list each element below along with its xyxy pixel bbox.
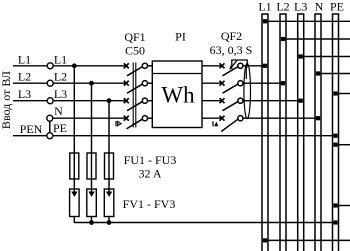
node square PE feeder low [333, 203, 337, 207]
svg-text:32 A: 32 A [138, 167, 161, 181]
breaker QF1 pole 3 [124, 98, 148, 111]
RCD QF2 pole 1 [220, 63, 243, 76]
wire meter to QF2 pole1 [202, 65, 222, 67]
wire meter to QF2 pole2 [202, 82, 222, 84]
svg-text:63, 0,3 S: 63, 0,3 S [210, 43, 253, 57]
wire N-PE link [49, 121, 51, 133]
feeder wire L1 bottom [265, 239, 350, 241]
arrester FV2 [87, 189, 97, 217]
wire L2 incoming [13, 82, 47, 84]
junction dot earth FV3 [107, 220, 112, 225]
terminal X1.3 circle L3 [47, 98, 53, 104]
svg-text:Ввод от ВЛ: Ввод от ВЛ [0, 71, 13, 129]
fuse FU2 [87, 153, 96, 179]
busbar L1 [261, 14, 268, 251]
svg-text:QF1: QF1 [124, 30, 145, 44]
RCD QF2 pole 2 [220, 81, 243, 94]
fuse FU3 [105, 153, 114, 179]
junction dot earth FV2 [89, 220, 94, 225]
svg-text:L1: L1 [258, 0, 271, 14]
feeder wire L1 top [265, 20, 350, 22]
wire L1 incoming [13, 65, 47, 67]
wire QF2 pole1 to L1 bus [243, 65, 265, 67]
node square L3 in [299, 99, 303, 103]
feeder wire L2 top [283, 38, 350, 40]
terminal circle N [47, 115, 53, 121]
breaker QF1 pole 1 [124, 63, 148, 76]
svg-text:L1: L1 [18, 52, 31, 66]
svg-text:PI: PI [175, 30, 186, 44]
svg-text:QF2: QF2 [221, 29, 242, 43]
busbar N [314, 14, 321, 251]
RCD QF2 pole 3 [220, 98, 243, 111]
junction dot L1 tap [72, 63, 77, 68]
svg-text:L3: L3 [18, 87, 31, 101]
wire PEN incoming [13, 135, 47, 137]
wire L1 terminal to QF1 [53, 65, 126, 67]
RCD QF2 pole 4 [220, 116, 243, 132]
svg-text:N: N [315, 0, 324, 14]
node square L2 in [281, 81, 285, 85]
wire QF2 pole4 to N bus [243, 117, 318, 119]
wire L2 terminal to QF1 [53, 82, 126, 84]
wire fuse drop 3 [108, 101, 110, 196]
wire PE line to PE bus [53, 135, 336, 137]
svg-text:PEN: PEN [20, 122, 43, 136]
wire meter to QF2 pole4 [202, 117, 222, 119]
svg-text:L2: L2 [54, 70, 67, 84]
QF2 differential release symbol IΔ [212, 121, 214, 126]
svg-text:FV1 - FV3: FV1 - FV3 [123, 197, 176, 211]
node square N feeder [316, 71, 320, 75]
svg-text:N: N [54, 104, 63, 118]
QF2 differential toroid ellipse [244, 63, 251, 118]
feeder wire PE top [336, 93, 350, 95]
wire QF1 pole3 to meter [148, 100, 153, 102]
feeder wire PE mid [336, 144, 350, 146]
svg-text:L2: L2 [18, 70, 31, 84]
svg-text:L1: L1 [54, 52, 67, 66]
wire fuse drop 1 [73, 66, 75, 196]
svg-text:PE: PE [53, 121, 67, 135]
arrester FV3 [104, 189, 114, 217]
terminal X1.2 circle L2 [47, 80, 53, 86]
junction dot L2 tap [89, 81, 94, 86]
QF2 toroid link arrow [245, 67, 247, 79]
wire L3 incoming [13, 100, 47, 102]
QF2 trip box [232, 60, 247, 67]
wire fuse drop 2 [91, 83, 93, 196]
feeder wire N top [318, 73, 350, 75]
node square PE feeder top [333, 91, 337, 95]
node square L1 feeder bottom [263, 238, 267, 242]
wire QF2 pole3 to L3 bus [243, 100, 301, 102]
node square L1 feeder top [263, 19, 267, 23]
node square L1 in [263, 64, 267, 68]
busbar PE [332, 14, 339, 251]
svg-text:C50: C50 [125, 44, 145, 58]
breaker QF1 pole 4 [124, 116, 148, 129]
QF2 trip arrow [231, 60, 237, 67]
node square L3 feeder [299, 54, 303, 58]
feeder wire PE low [336, 205, 350, 207]
wire arrester earth line [74, 222, 335, 224]
junction dot L3 tap [107, 98, 112, 103]
breaker QF1 pole 2 [124, 81, 148, 94]
terminal X1.1 circle L1 [47, 63, 53, 69]
wire QF1 pole4 to meter [148, 117, 153, 119]
node square PE earth [333, 220, 337, 224]
svg-text:FU1 - FU3: FU1 - FU3 [124, 153, 177, 167]
arrester FV1 [70, 189, 80, 217]
busbar L2 [279, 14, 286, 251]
node square N in [316, 116, 320, 120]
wire L3 terminal to QF1 [53, 100, 126, 102]
svg-text:L2: L2 [276, 0, 289, 14]
svg-text:Wh: Wh [161, 83, 195, 108]
wire meter to QF2 pole3 [202, 100, 222, 102]
node square PE in [333, 134, 337, 138]
QF1 overcurrent release symbol I> [115, 121, 117, 127]
wire QF2 pole2 to L2 bus [243, 82, 283, 84]
feeder wire L3 top [301, 56, 350, 58]
meter PI box [152, 61, 202, 128]
terminal circle PE [47, 133, 53, 139]
fuse FU1 [70, 153, 79, 179]
wire QF1 pole1 to meter [148, 65, 153, 67]
QF1 linkage bar [132, 63, 134, 128]
busbar L3 [297, 14, 304, 251]
wire QF1 pole2 to meter [148, 82, 153, 84]
svg-text:PE: PE [330, 0, 344, 14]
node square L2 feeder [281, 37, 285, 41]
svg-text:L3: L3 [294, 0, 307, 14]
svg-text:L3: L3 [54, 87, 67, 101]
wire N terminal to QF1 [53, 117, 127, 119]
node square PE feeder mid [333, 143, 337, 147]
